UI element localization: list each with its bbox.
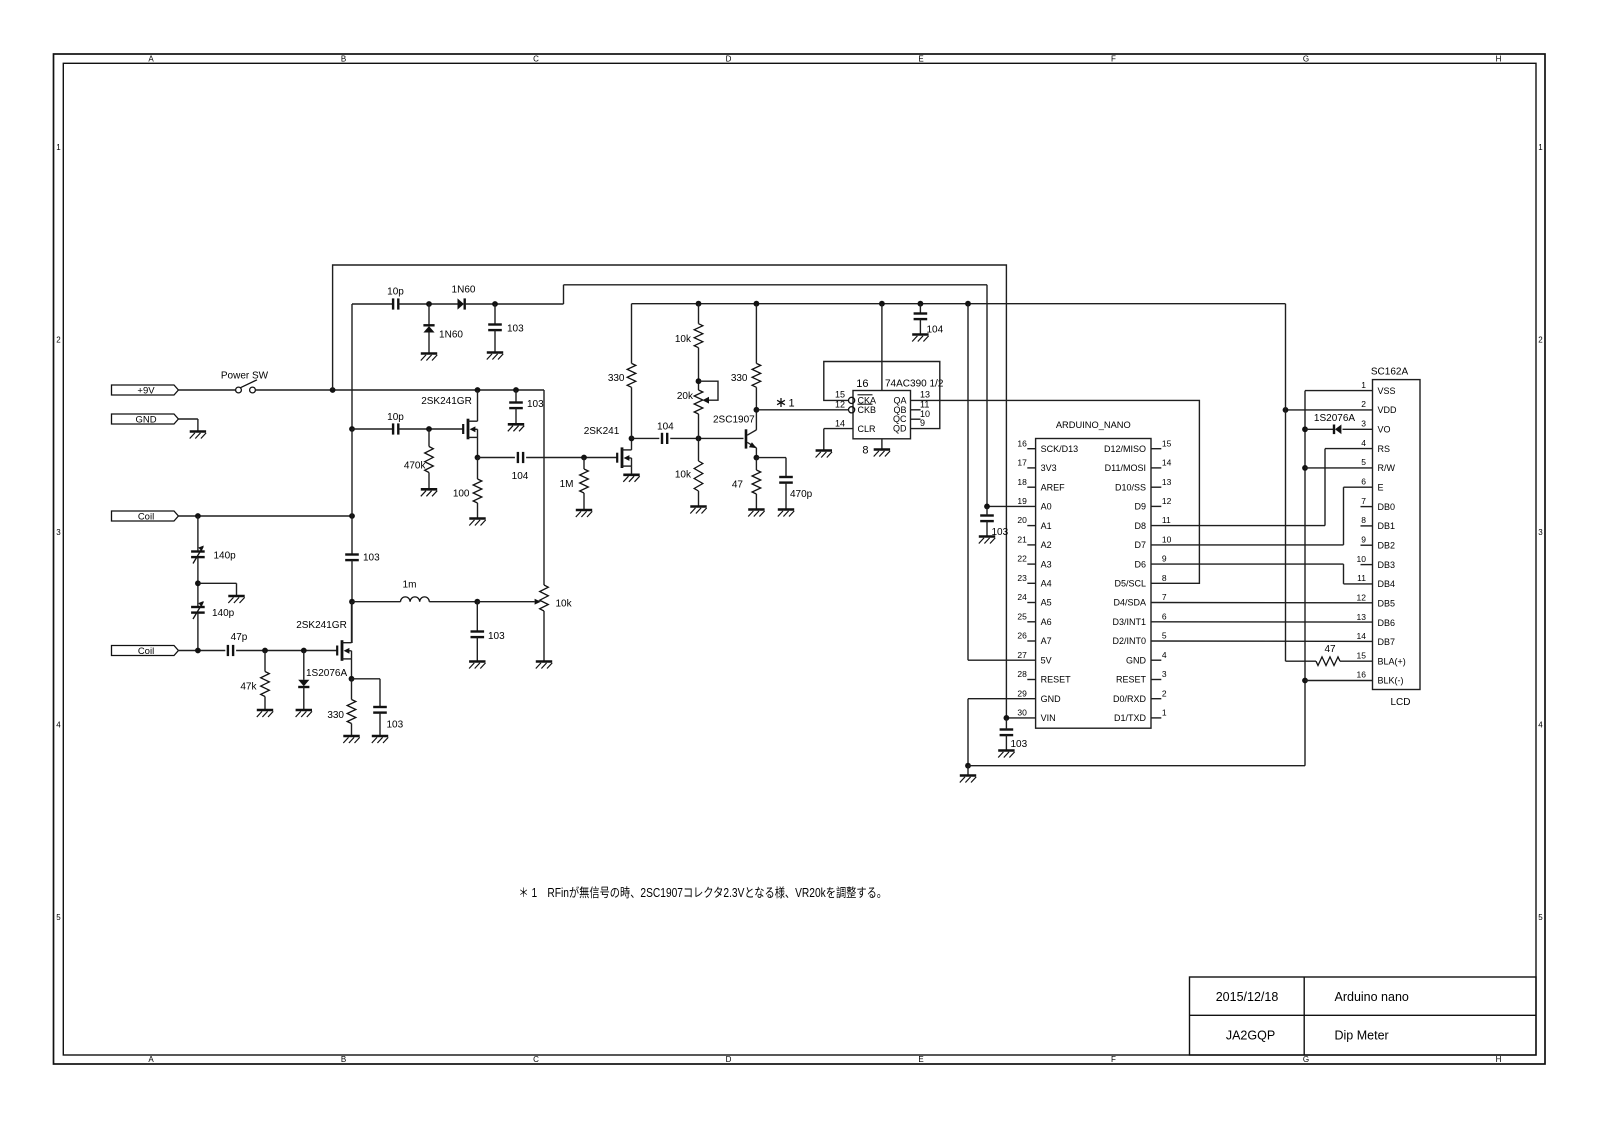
svg-text:DB7: DB7 [1378,637,1396,647]
resistor 47k [261,672,270,697]
svg-text:15: 15 [1357,650,1367,660]
stub QB pin11 [911,409,921,411]
wire R10k to VR20k [698,348,700,390]
wire GND pin8 [881,439,883,450]
junction base node [696,436,702,442]
svg-text:4: 4 [1538,721,1543,730]
svg-text:VO: VO [1378,425,1391,435]
svg-text:F: F [1111,55,1116,64]
svg-text:DB2: DB2 [1378,540,1396,550]
svg-text:2SC1907: 2SC1907 [713,415,755,426]
resistor 330 (osc) lead [351,679,353,700]
wire A0 to detector [987,505,1036,507]
ground at 1S2076A [296,709,312,712]
wire R330 osc ground [351,724,353,737]
wire 1N60 shunt to ground [428,333,430,354]
title block vertical divider [1303,977,1305,1055]
svg-text:D2/INT0: D2/INT0 [1112,636,1146,646]
resistor 47 (backlight) [1316,657,1340,666]
junction detector node [426,301,432,307]
svg-text:10: 10 [1357,554,1367,564]
svg-text:1: 1 [1162,708,1167,718]
wire R10k lower ground [698,491,700,507]
svg-text:15: 15 [835,389,845,399]
svg-text:G: G [1303,55,1309,64]
wire 1S2076A ground [303,687,305,710]
svg-text:CKB: CKB [858,405,877,415]
wire DB4 from D6 [1151,563,1344,565]
svg-text:9: 9 [920,418,925,428]
wire QD to CKA feedback loop [824,362,940,429]
svg-text:103: 103 [527,399,544,410]
svg-text:13: 13 [1357,612,1367,622]
ground at C104 bypass [912,333,928,336]
svg-text:47k: 47k [240,682,257,693]
junction RW/ground [1302,465,1308,471]
svg-text:RS: RS [1378,444,1391,454]
svg-text:D1/TXD: D1/TXD [1114,713,1147,723]
wire 5V column to BLA [1285,304,1287,662]
svg-text:8: 8 [1361,515,1366,525]
capacitor 104 (5V bypass) lead [919,304,921,313]
VR20k wiper arrow [702,397,709,404]
ground at C103 VIN [998,749,1014,752]
transistor Q1 2SK241GR [467,419,470,440]
wire osc column top [351,304,353,429]
junction +9V/Q1 drain [475,387,481,393]
junction 5V/R10k [696,301,702,307]
svg-text:6: 6 [1361,476,1366,486]
diode 1N60 series [458,298,464,309]
ground at R10k lower [690,505,706,508]
wire Q3 drain up [351,602,353,643]
capacitor 104 (coupling2) [661,433,663,444]
capacitor 104 (5V bypass) [914,312,928,314]
capacitor 103 lead (L node) [476,602,478,631]
svg-text:A4: A4 [1041,579,1052,589]
svg-text:6: 6 [1162,611,1167,621]
ground at detector C103 [487,351,503,354]
svg-text:26: 26 [1017,631,1027,641]
svg-text:19: 19 [1017,496,1027,506]
CKA inversion bubble [849,397,855,403]
ground at CLR [816,449,832,452]
svg-text:B: B [341,1055,346,1064]
svg-text:5: 5 [56,913,61,922]
wire +9V to switch [178,389,236,391]
svg-text:＊ 1 RFinが無信号の時、2SC1907コレクタ2.3V: ＊ 1 RFinが無信号の時、2SC1907コレクタ2.3Vとなる様、VR20k… [519,885,888,900]
svg-text:A0: A0 [1041,502,1052,512]
svg-text:QD: QD [893,424,907,434]
svg-text:ARDUINO_NANO: ARDUINO_NANO [1056,420,1131,430]
svg-text:H: H [1496,55,1502,64]
capacitor 104 (coupling1) [517,452,519,463]
resistor 100 [473,479,482,503]
svg-text:1N60: 1N60 [439,330,463,341]
svg-text:2: 2 [1162,688,1167,698]
wire to C10p gate [352,428,393,430]
svg-text:1M: 1M [560,479,574,490]
wire C103 VIN leads [1005,718,1007,730]
svg-text:20: 20 [1017,515,1027,525]
junction VO/ground [1302,426,1308,432]
svg-text:D7: D7 [1134,540,1146,550]
svg-text:103: 103 [363,553,380,564]
svg-text:VDD: VDD [1378,405,1398,415]
wire source1 to C104 [478,457,515,459]
svg-text:22: 22 [1017,554,1027,564]
svg-text:21: 21 [1017,535,1027,545]
ground at VR 10k [536,660,552,663]
wire VIN pin30 [1006,717,1035,719]
svg-text:A2: A2 [1041,540,1052,550]
wire R47 ground [755,494,757,510]
svg-text:47: 47 [732,480,744,491]
junction emitter node [754,455,760,461]
svg-text:A5: A5 [1041,598,1052,608]
svg-text:2: 2 [1361,399,1366,409]
wire osc column mid [351,429,353,554]
wire Q1 drain to +9V [477,390,479,421]
svg-text:1: 1 [1361,380,1366,390]
svg-text:103: 103 [507,324,524,335]
svg-text:2SK241GR: 2SK241GR [296,620,347,631]
svg-text:27: 27 [1017,650,1027,660]
svg-text:E: E [1378,482,1384,492]
wire C104 to base node [670,437,743,439]
resistor 100 lead [477,458,479,480]
terminal Coil upper [112,511,179,521]
resistor 10k upper [694,324,703,348]
resistor 330 (collector) [755,304,757,364]
potentiometer VR 20k [694,390,703,414]
ground at R330 osc [343,735,359,738]
svg-text:3: 3 [56,528,61,537]
wire emitter to C470p [756,457,786,459]
svg-text:Coil: Coil [138,646,154,657]
svg-text:10k: 10k [556,598,573,609]
svg-text:14: 14 [1357,631,1367,641]
wire BLA 47 right [1340,660,1373,662]
svg-text:10p: 10p [387,412,404,423]
svg-text:1: 1 [1538,143,1543,152]
svg-text:E: E [918,1055,923,1064]
svg-text:2015/12/18: 2015/12/18 [1216,990,1279,1004]
wire BLA 47 left [1286,660,1317,662]
svg-text:5: 5 [1361,457,1366,467]
svg-text:Coil: Coil [138,511,154,522]
resistor 10k lower [694,461,703,491]
wire C103 to ground [494,330,496,352]
svg-text:7: 7 [1361,496,1366,506]
junction source3 node [349,676,355,682]
svg-text:Power SW: Power SW [221,370,269,381]
wire +9V rail [255,389,544,391]
svg-text:330: 330 [608,373,625,384]
capacitor 103 (L node) [471,630,485,632]
ground at R47 [748,508,764,511]
ground at C103 bypass [508,423,524,426]
resistor 470k lead [428,429,430,447]
wire C10p to D1N60 [399,303,458,305]
svg-text:Arduino nano: Arduino nano [1335,990,1409,1004]
svg-text:16: 16 [856,378,868,390]
wire C103 A0 leads [986,506,988,515]
wire VSS to ground bus [1305,390,1373,392]
svg-text:+9V: +9V [137,385,155,396]
svg-text:7: 7 [1162,592,1167,602]
svg-text:D10/SS: D10/SS [1115,482,1146,492]
wire R47k ground [264,697,266,711]
wire 47p to gate Q3 [236,650,337,652]
wire vc tap to ground [198,582,237,584]
svg-text:GND: GND [1041,694,1062,704]
svg-text:DB1: DB1 [1378,521,1396,531]
svg-text:1m: 1m [403,580,417,591]
resistor 47 lead [755,458,757,470]
capacitor 103 (bypass Q1) [509,401,523,403]
wire ground bus to LCD [968,765,1305,767]
svg-text:4: 4 [56,721,61,730]
svg-text:10k: 10k [675,470,692,481]
variable capacitor 140p upper [191,550,205,552]
switch SW1 [236,387,242,393]
svg-text:C: C [533,1055,539,1064]
ground at R1M [576,509,592,512]
svg-text:10k: 10k [675,334,692,345]
resistor 10k upper lead [698,304,700,324]
title block box [1190,977,1537,1055]
junction +9V/C103b [513,387,519,393]
capacitor 103 detector lead [494,304,496,324]
CKB inversion bubble [849,407,855,413]
svg-text:B: B [341,55,346,64]
junction collector node *1 [754,407,760,413]
svg-text:12: 12 [1357,592,1367,602]
svg-text:30: 30 [1017,708,1027,718]
svg-text:RESET: RESET [1041,675,1072,685]
wire VR20k wiper loop [699,381,719,400]
svg-text:470k: 470k [404,461,427,472]
IC U1 74AC390 body [853,391,911,439]
junction gate2/R1M [581,455,587,461]
stub QC pin10 [911,418,921,420]
wire D1N60 to C103 [465,303,564,305]
svg-text:F: F [1111,1055,1116,1064]
svg-text:JA2GQP: JA2GQP [1226,1029,1275,1043]
svg-text:1S2076A: 1S2076A [306,668,347,679]
svg-text:104: 104 [657,422,674,433]
wire osc column low [351,560,353,643]
ground at Q2 source [623,473,639,476]
wire C470p ground [785,483,787,510]
junction detected node [492,301,498,307]
junction A0/C103 [984,504,990,510]
wire DB7 from D2/INT0 [1151,640,1373,642]
wire coil line upper [178,515,352,517]
svg-text:15: 15 [1162,438,1172,448]
svg-text:D5/SCL: D5/SCL [1114,579,1146,589]
junction coil2/vc [195,648,201,654]
svg-text:12: 12 [835,399,845,409]
svg-text:LCD: LCD [1390,697,1410,708]
terminal +9V [112,385,179,395]
svg-text:GND: GND [135,414,156,425]
wire Q2 source [631,466,633,475]
svg-text:E: E [918,55,923,64]
wire A0 column down [986,285,988,507]
junction between 140p [195,580,201,586]
wire C103 Lnode ground [476,637,478,661]
svg-text:Dip Meter: Dip Meter [1335,1029,1389,1043]
resistor 47 (emitter) [752,470,761,494]
variable capacitor 140p lower [191,606,205,608]
diode 1S2076A lead [303,651,305,680]
wire VDD [1286,409,1373,411]
junction BLK/ground [1302,678,1308,684]
svg-text:A: A [148,55,154,64]
wire R470k to ground [428,473,430,490]
wire 5V pin27 [968,659,1036,661]
ground at C103 osc [372,735,388,738]
svg-text:10p: 10p [387,287,404,298]
svg-text:5: 5 [1162,631,1167,641]
svg-text:D: D [726,55,732,64]
wire main ground lead [967,766,969,776]
ground at 140p tap [228,595,244,598]
svg-text:D8: D8 [1134,521,1146,531]
svg-text:14: 14 [835,419,845,429]
svg-text:100: 100 [453,489,470,500]
wire detected step up [563,285,565,304]
resistor 1M lead [583,458,585,470]
svg-text:D9: D9 [1134,502,1146,512]
svg-text:20k: 20k [677,391,694,402]
svg-text:1N60: 1N60 [452,285,476,296]
svg-text:A6: A6 [1041,617,1052,627]
terminal GND [112,414,179,424]
svg-text:H: H [1496,1055,1502,1064]
svg-text:3: 3 [1361,419,1366,429]
svg-text:DB3: DB3 [1378,560,1396,570]
svg-text:25: 25 [1017,611,1027,621]
wire top loop +9V to VIN [333,265,1007,718]
capacitor 470p [779,476,793,478]
svg-text:140p: 140p [212,608,235,619]
svg-text:9: 9 [1162,554,1167,564]
junction source1 node [475,455,481,461]
wire C104 bypass ground [919,319,921,334]
svg-text:2: 2 [1538,336,1543,345]
resistor 330 (osc) [347,700,356,724]
junction VDD/5V [1283,407,1289,413]
junction VR20k top [696,378,702,384]
capacitor 10p (gate Q1) [392,423,394,434]
IC U3 SC162A box [1373,380,1421,690]
svg-text:140p: 140p [214,551,237,562]
svg-text:BLK(-): BLK(-) [1378,676,1404,686]
svg-text:47: 47 [1324,644,1336,655]
wire Q2 drain up [631,438,633,450]
wire detected to A0 column [564,284,988,286]
ground at R470k [421,488,437,491]
wire wiper line [477,601,534,603]
svg-text:16: 16 [1017,438,1027,448]
svg-text:D6: D6 [1134,559,1146,569]
ground at C103 L node [469,660,485,663]
potentiometer VR 10k wiper arrow [535,599,541,605]
svg-text:9: 9 [1361,534,1366,544]
svg-text:47p: 47p [231,632,248,643]
capacitor 103 (VIN) [1000,728,1014,730]
svg-text:16: 16 [1357,670,1367,680]
label *1 [777,398,785,407]
wire source3 to C103 [352,678,381,680]
svg-text:5V: 5V [1041,655,1052,665]
resistor 470k [425,447,434,473]
wire R1M to ground [583,493,585,510]
ground at C103 A0 [979,535,995,538]
resistor 1M [580,469,589,493]
svg-text:A7: A7 [1041,636,1052,646]
ground at C470p [778,508,794,511]
wire VCC pin16 [881,304,883,391]
wire 5V rail [632,303,1286,305]
svg-text:13: 13 [920,389,930,399]
svg-text:8: 8 [862,445,868,457]
svg-text:3: 3 [1162,669,1167,679]
svg-text:2SK241: 2SK241 [584,426,620,437]
svg-text:D: D [726,1055,732,1064]
wire GND terminal to ground [178,418,198,420]
resistor 47k lead [264,651,266,672]
wire C104 to gate Q2 [526,457,617,459]
diode 1S2076A (VO) [1305,428,1334,430]
capacitor 10p (detector) [392,298,394,309]
svg-text:28: 28 [1017,669,1027,679]
svg-text:AREF: AREF [1041,482,1066,492]
wire GND pin29 [968,698,1036,700]
svg-text:A: A [148,1055,154,1064]
terminal Coil lower [112,646,179,656]
svg-text:D3/INT1: D3/INT1 [1112,617,1146,627]
svg-text:C: C [533,55,539,64]
svg-text:4: 4 [1361,438,1366,448]
wire VR10k to ground [543,611,545,662]
svg-text:103: 103 [488,631,505,642]
junction 5V/C104 [918,301,924,307]
ground at GND terminal [190,430,206,433]
svg-text:2SK241GR: 2SK241GR [421,396,472,407]
ground at IC pin8 [874,448,890,451]
svg-text:SCK/D13: SCK/D13 [1041,444,1079,454]
svg-text:11: 11 [1357,573,1366,583]
diode 1N60 shunt [423,324,434,326]
svg-text:13: 13 [1162,477,1172,487]
svg-text:G: G [1303,1055,1309,1064]
ground at 1N60 shunt [421,352,437,355]
svg-text:29: 29 [1017,688,1027,698]
junction L/C103 node [474,599,480,605]
svg-text:VIN: VIN [1041,713,1056,723]
svg-text:D0/RXD: D0/RXD [1113,694,1147,704]
wire E from D7 [1151,544,1344,546]
ground at main ground node [960,774,976,777]
capacitor 103 (detector) [488,323,502,325]
svg-text:2: 2 [56,336,61,345]
wire oscillator to C10p [352,303,393,305]
svg-text:11: 11 [1162,515,1171,525]
